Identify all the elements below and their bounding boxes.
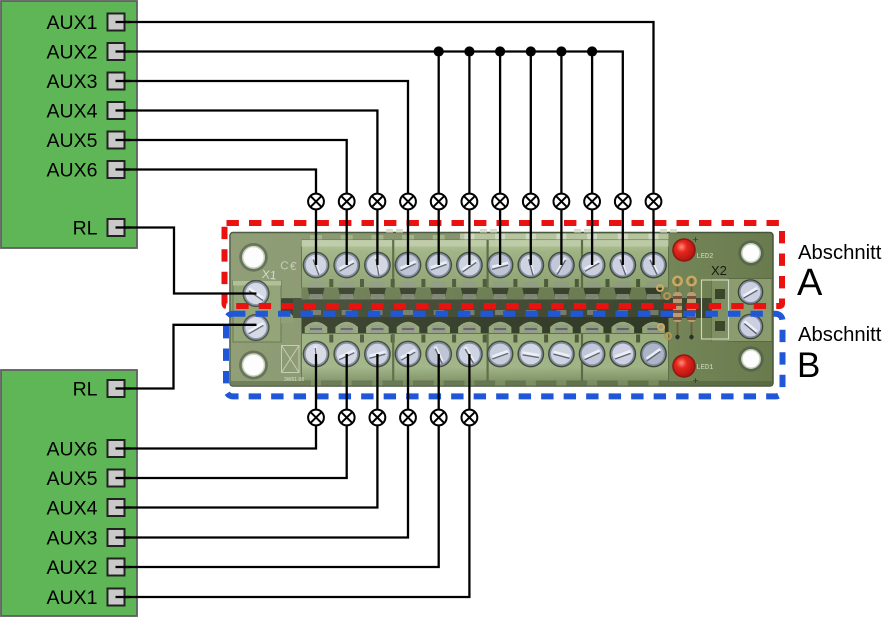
svg-text:Abschnitt: Abschnitt <box>798 324 882 346</box>
svg-text:AUX5: AUX5 <box>47 130 98 152</box>
svg-text:AUX4: AUX4 <box>47 101 98 123</box>
svg-text:B: B <box>797 346 820 385</box>
svg-text:AUX1: AUX1 <box>47 587 98 609</box>
svg-text:RL: RL <box>73 218 98 240</box>
svg-text:A: A <box>797 262 823 304</box>
svg-text:AUX2: AUX2 <box>47 42 98 64</box>
svg-text:Abschnitt: Abschnitt <box>798 242 882 264</box>
svg-text:AUX3: AUX3 <box>47 528 98 550</box>
svg-text:AUX2: AUX2 <box>47 557 98 579</box>
svg-text:AUX6: AUX6 <box>47 160 98 182</box>
svg-text:RL: RL <box>73 379 98 401</box>
svg-text:AUX4: AUX4 <box>47 498 98 520</box>
svg-text:AUX5: AUX5 <box>47 468 98 490</box>
svg-text:AUX1: AUX1 <box>47 12 98 34</box>
svg-text:AUX6: AUX6 <box>47 439 98 461</box>
svg-text:AUX3: AUX3 <box>47 71 98 93</box>
